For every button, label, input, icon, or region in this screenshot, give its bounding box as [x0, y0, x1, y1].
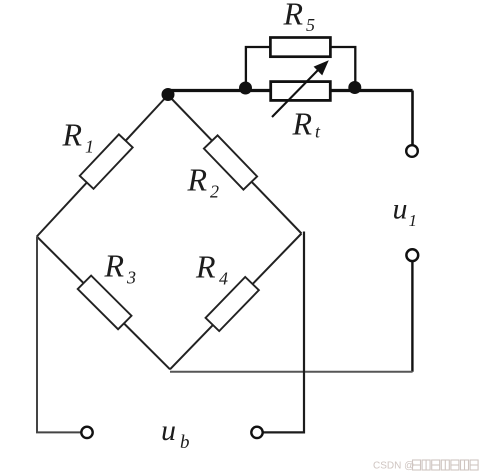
wire: u1 lower terminal down to bottom bus: [411, 262, 413, 372]
svg-text:R: R: [187, 162, 208, 198]
terminal: u1 lower open circle: [406, 249, 418, 261]
svg-text:t: t: [315, 122, 321, 142]
label R1: [62, 117, 95, 157]
resistor Rt (adjustable): [271, 82, 331, 101]
svg-text:2: 2: [210, 182, 219, 202]
svg-text:b: b: [180, 432, 190, 453]
svg-text:u: u: [161, 414, 176, 447]
wire: thick bus from top node to right bend: [168, 89, 413, 92]
svg-text:1: 1: [85, 137, 94, 157]
watermark CSDN: [373, 460, 478, 471]
resistor R3: [78, 276, 132, 330]
label R3: [104, 248, 137, 288]
svg-text:R: R: [62, 117, 83, 153]
junction dot: left of R5/Rt parallel pair: [239, 82, 252, 95]
svg-text:3: 3: [126, 268, 136, 288]
svg-text:4: 4: [219, 269, 228, 289]
label u1: [393, 193, 418, 231]
resistor R5: [270, 38, 330, 57]
arrow of adjustable resistor Rt: [272, 60, 329, 117]
svg-text:R: R: [283, 0, 304, 32]
wire: right corner down to ub right terminal: [264, 232, 305, 433]
resistor R1: [80, 134, 133, 188]
svg-text:CSDN @: CSDN @: [373, 460, 414, 471]
label Rt: [292, 106, 322, 142]
wire: right bend down to u1 upper terminal: [411, 91, 414, 146]
wire: bridge edge top node to left corner (R1 arm): [37, 95, 168, 237]
wire: bridge edge left corner to bottom node (R3 arm): [37, 237, 170, 370]
terminal: ub left open circle: [81, 427, 92, 438]
wire: bridge edge bottom node to right corner (R4 arm): [170, 234, 302, 370]
svg-text:1: 1: [409, 211, 418, 230]
junction dot: bridge top node: [162, 88, 175, 101]
svg-text:R: R: [292, 106, 313, 142]
svg-text:5: 5: [306, 15, 315, 35]
terminal: u1 upper open circle: [406, 145, 418, 157]
junction dot: right of R5/Rt parallel pair: [348, 81, 361, 94]
wire: R5 branch right riser: [330, 47, 355, 90]
label ub: [161, 414, 190, 453]
terminal: ub right open circle: [251, 427, 262, 438]
svg-text:R: R: [104, 248, 125, 284]
resistor R4: [206, 277, 259, 331]
svg-text:u: u: [393, 193, 408, 226]
wire: bottom bus from bridge bottom node to right: [170, 371, 413, 373]
resistor R2: [204, 135, 257, 189]
wire: R5 branch left riser: [246, 47, 271, 90]
label R2: [187, 162, 220, 202]
label R5: [283, 0, 316, 35]
label R4: [195, 249, 228, 289]
wire: left corner down and over to ub left terminal: [37, 237, 81, 433]
svg-text:R: R: [195, 249, 216, 285]
wire: bridge edge top node to right corner (R2 arm): [168, 95, 302, 234]
